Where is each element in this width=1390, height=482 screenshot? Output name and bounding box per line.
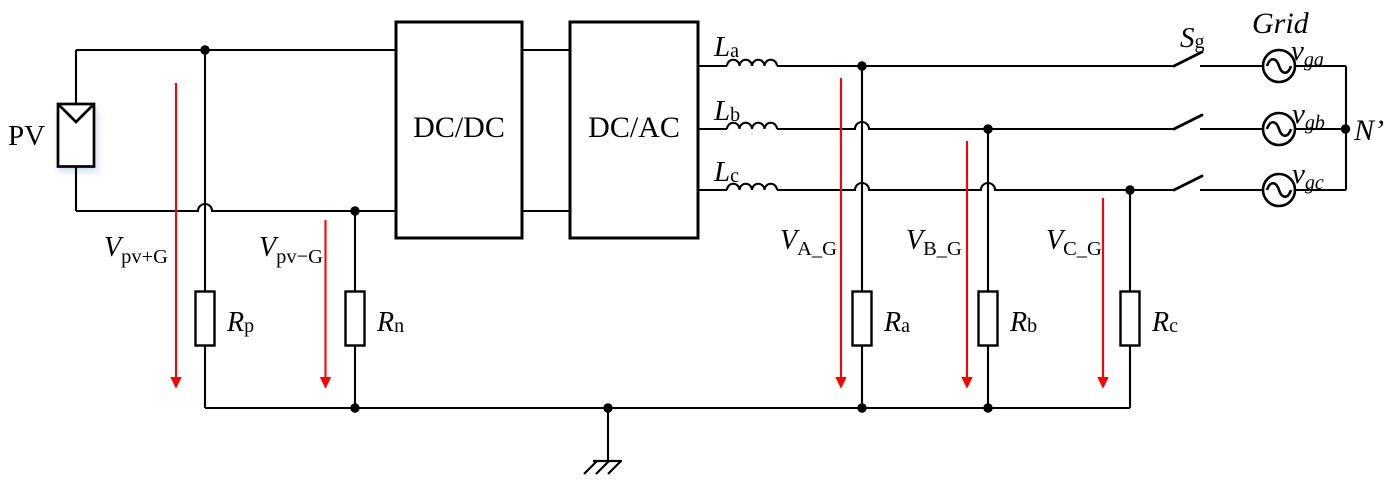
- svg-text:Vpv+G: Vpv+G: [104, 232, 168, 268]
- svg-text:VB_G: VB_G: [906, 225, 962, 260]
- svg-text:Lc: Lc: [713, 156, 739, 188]
- svg-text:vgc: vgc: [1292, 158, 1324, 194]
- svg-text:Lb: Lb: [713, 95, 740, 127]
- svg-text:Rp: Rp: [226, 307, 254, 338]
- svg-text:vga: vga: [1291, 35, 1324, 71]
- svg-text:DC/AC: DC/AC: [588, 111, 680, 144]
- svg-text:La: La: [713, 31, 739, 63]
- svg-text:Rc: Rc: [1151, 307, 1178, 338]
- svg-text:VA_G: VA_G: [780, 225, 837, 260]
- svg-text:DC/DC: DC/DC: [413, 111, 505, 144]
- svg-text:PV: PV: [8, 120, 45, 152]
- svg-text:Rn: Rn: [376, 307, 404, 338]
- svg-text:VC_G: VC_G: [1046, 225, 1102, 260]
- svg-text:N’: N’: [1353, 114, 1384, 147]
- svg-text:Ra: Ra: [883, 307, 910, 338]
- svg-text:vgb: vgb: [1292, 98, 1325, 134]
- svg-text:Rb: Rb: [1009, 307, 1037, 338]
- svg-text:Vpv−G: Vpv−G: [259, 232, 323, 268]
- svg-text:Sg: Sg: [1180, 22, 1205, 54]
